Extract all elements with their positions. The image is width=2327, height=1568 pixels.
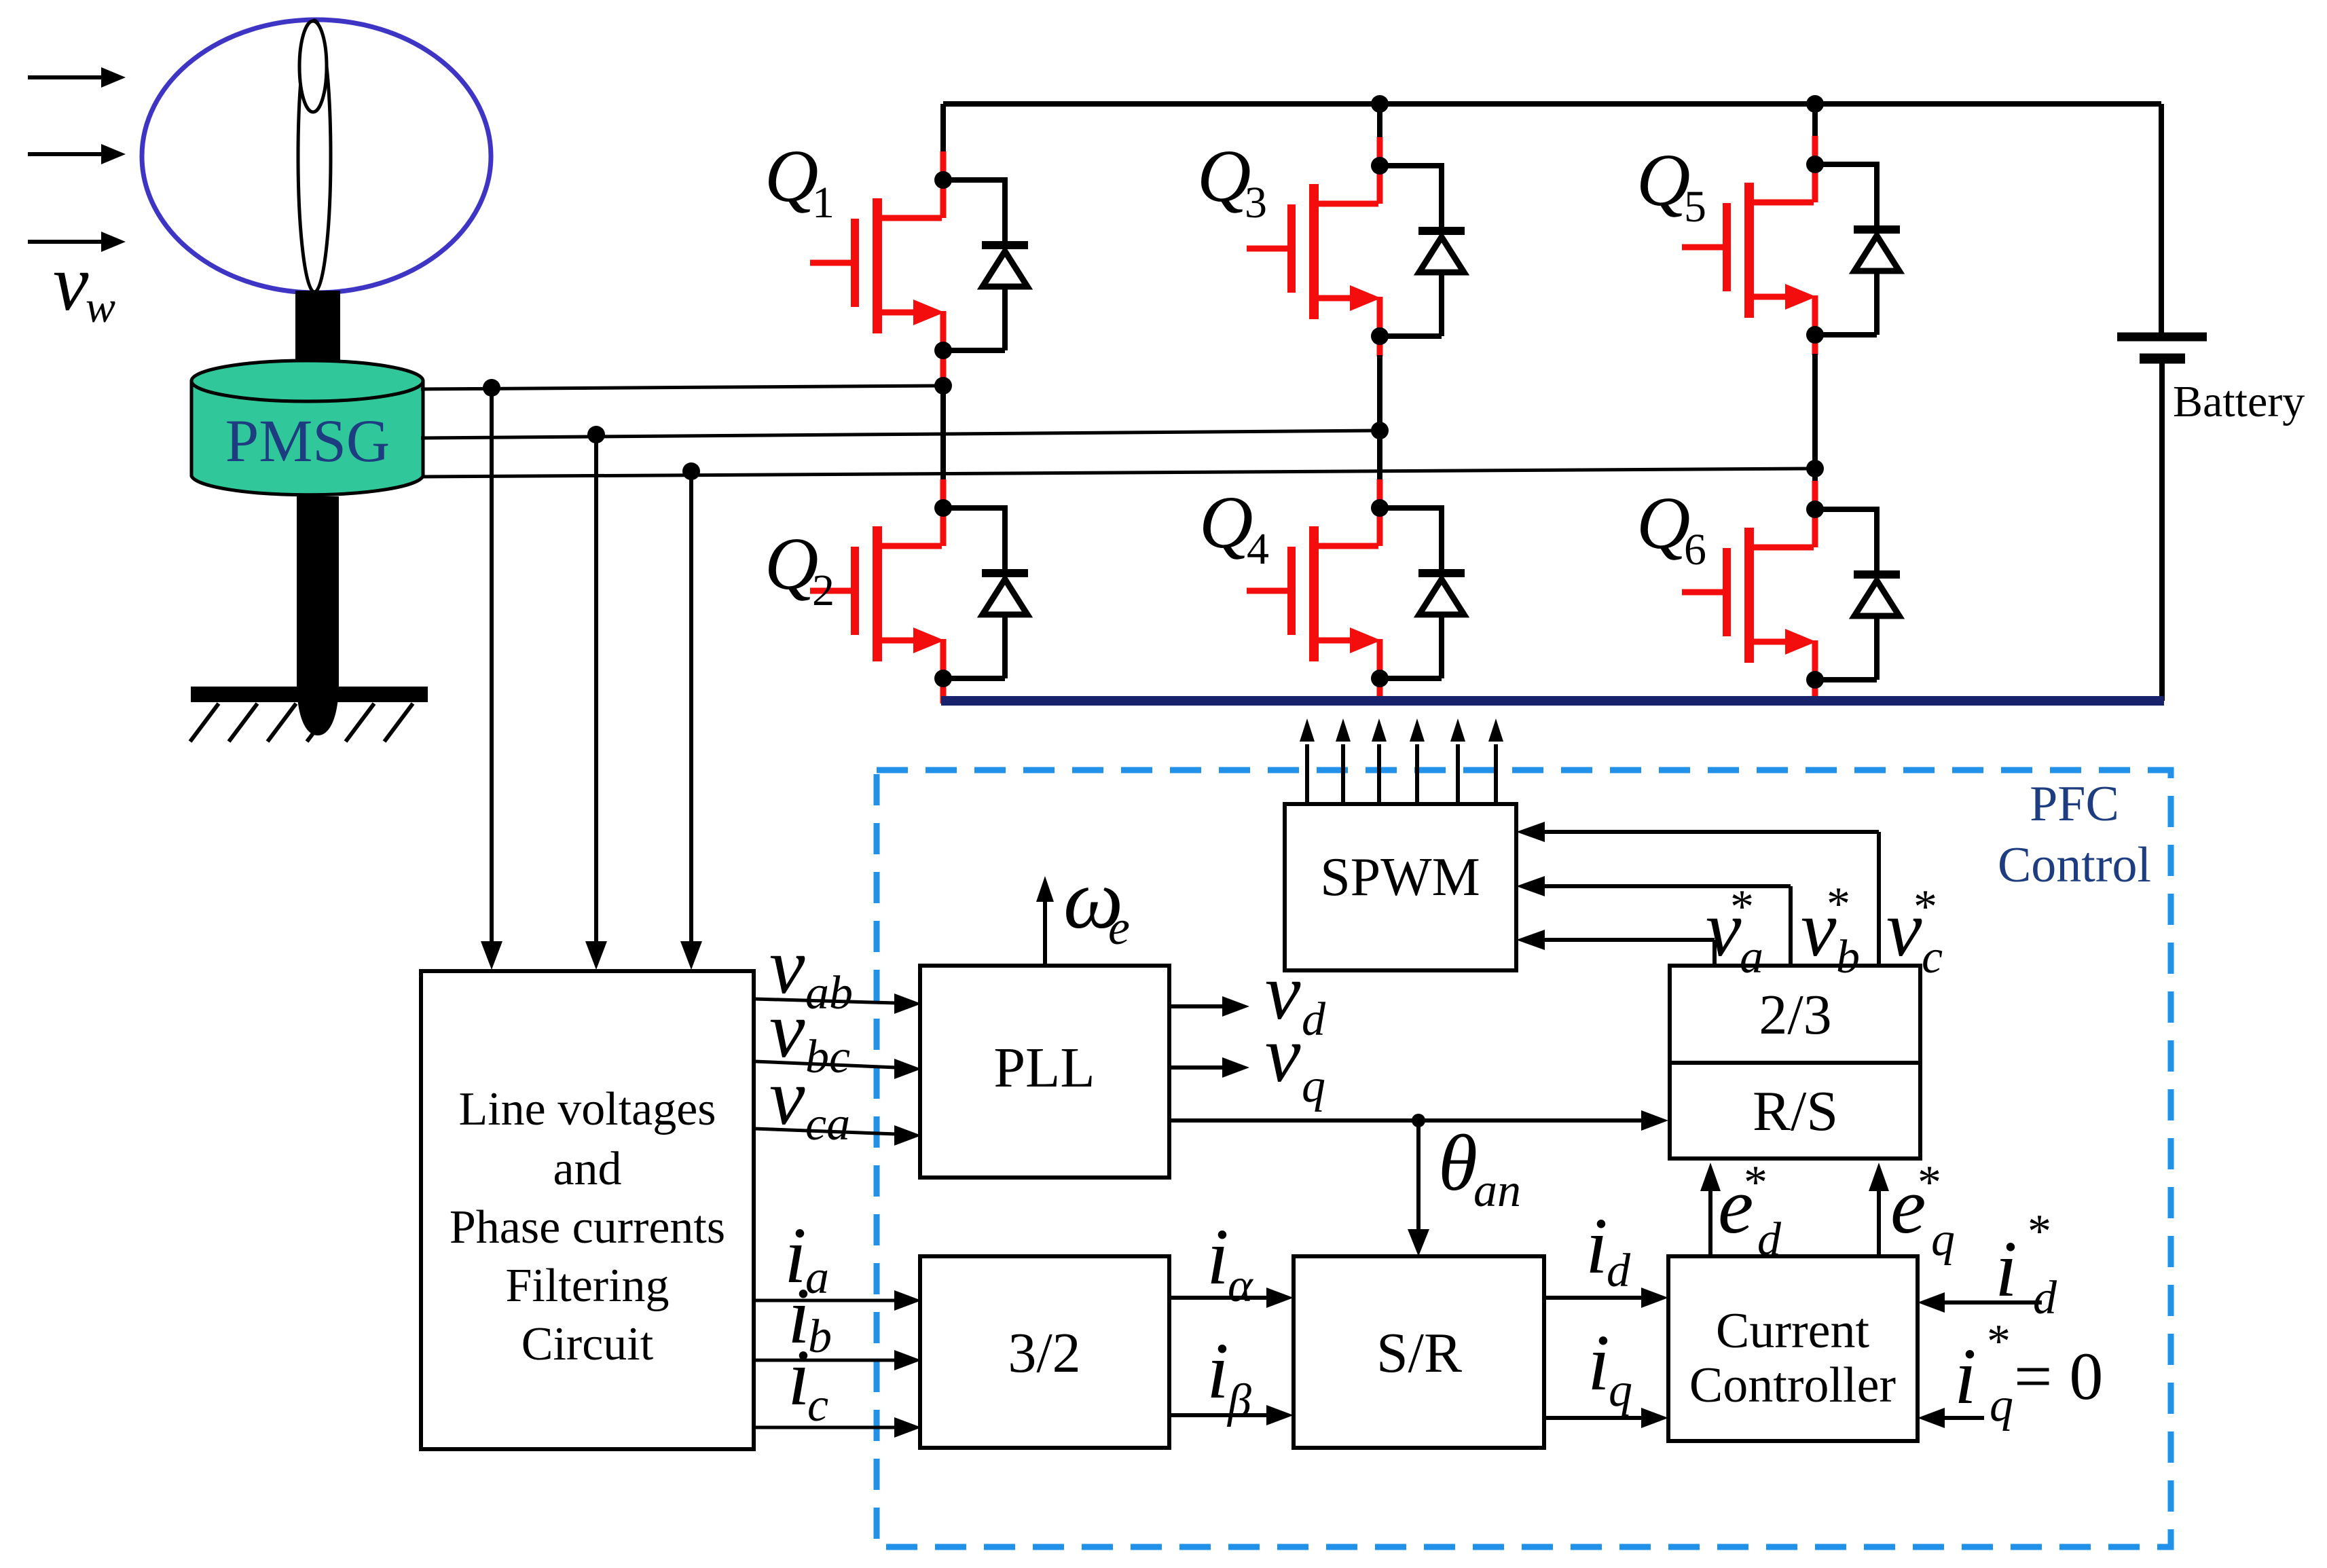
label omega_e	[1063, 853, 1130, 955]
label vab	[769, 922, 853, 1019]
wire leg3 red below Q5	[1812, 333, 1818, 355]
diode D5	[1815, 164, 1900, 335]
wire leg2 red below Q3	[1377, 335, 1383, 357]
svg-text:Current: Current	[1716, 1303, 1869, 1359]
svg-text:*: *	[1827, 878, 1850, 930]
block 2/3 R/S	[1670, 966, 1920, 1159]
svg-text:w: w	[86, 282, 115, 332]
label vca	[769, 1053, 850, 1150]
wire vbc to PLL	[754, 1059, 921, 1079]
svg-text:R/S: R/S	[1753, 1080, 1838, 1143]
diode D4	[1380, 508, 1465, 678]
svg-text:d: d	[2033, 1272, 2057, 1324]
svg-text:θ: θ	[1438, 1118, 1478, 1207]
svg-text:d: d	[1607, 1245, 1631, 1297]
diode D6	[1815, 509, 1900, 680]
wire sense drop b	[585, 435, 607, 970]
label ia	[784, 1211, 829, 1304]
label vq	[1265, 1010, 1325, 1112]
svg-text:Q: Q	[1636, 139, 1690, 221]
svg-text:*: *	[2028, 1205, 2051, 1258]
PFC control dashed boundary	[877, 770, 2171, 1547]
svg-text:q: q	[1302, 1060, 1325, 1112]
svg-text:q: q	[1609, 1364, 1632, 1417]
wire leg3 stub to bus	[1812, 678, 1818, 704]
svg-text:i: i	[1995, 1224, 2017, 1313]
wind arrow 3	[28, 232, 126, 252]
svg-text:bc: bc	[805, 1031, 850, 1083]
arrow vd out	[1169, 996, 1249, 1017]
wire bottom DC bus	[941, 696, 2164, 706]
svg-text:= 0: = 0	[2014, 1338, 2103, 1414]
svg-text:q: q	[1990, 1379, 2013, 1432]
block 3/2	[920, 1256, 1169, 1448]
battery wire lower	[2159, 363, 2165, 701]
svg-text:i: i	[1207, 1212, 1229, 1301]
wind arrow 2	[28, 144, 126, 164]
svg-text:S/R: S/R	[1376, 1321, 1462, 1385]
label Q5	[1636, 139, 1706, 232]
label iq*=0	[1954, 1315, 2103, 1432]
svg-text:d: d	[1757, 1214, 1782, 1266]
label theta_an	[1438, 1118, 1521, 1217]
transistor Q1	[810, 151, 952, 359]
svg-text:PMSG: PMSG	[225, 408, 390, 475]
wire ib to 3/2	[754, 1350, 921, 1370]
wire vq to RS	[1169, 1110, 1668, 1131]
shaft lower	[297, 496, 339, 735]
label vc*	[1886, 881, 1943, 983]
turbine rotor circle	[142, 20, 491, 293]
wire leg2 stub to bus	[1377, 677, 1383, 704]
label eq*	[1890, 1156, 1955, 1266]
transistor Q3	[1247, 137, 1389, 345]
wire ic to 3/2	[754, 1417, 921, 1438]
wire i_q	[1544, 1408, 1668, 1428]
svg-text:5: 5	[1684, 182, 1706, 232]
block filtering circuit	[421, 971, 754, 1449]
battery plate negative	[2140, 354, 2185, 364]
svg-text:q: q	[1931, 1214, 1955, 1266]
svg-text:*: *	[1744, 1156, 1767, 1209]
svg-text:a: a	[1740, 931, 1763, 983]
svg-text:v: v	[53, 238, 89, 327]
block SPWM	[1285, 804, 1516, 970]
transistor Q2	[810, 479, 952, 687]
wire i_beta	[1169, 1405, 1294, 1425]
svg-text:i: i	[1207, 1326, 1229, 1415]
svg-text:6: 6	[1684, 525, 1706, 575]
svg-text:i: i	[1954, 1332, 1977, 1421]
wire va* feedback	[1516, 930, 1715, 966]
label ed*	[1718, 1156, 1782, 1266]
wire leg1 stub to bus	[940, 677, 947, 704]
label i_alpha	[1207, 1212, 1253, 1312]
wire vb* feedback	[1516, 876, 1791, 966]
wire vc* feedback	[1516, 822, 1879, 966]
SPWM gate arrow 1	[1300, 718, 1315, 803]
node phase c tap	[682, 462, 700, 480]
wire ia to 3/2	[754, 1290, 921, 1311]
svg-text:PFC: PFC	[2030, 776, 2119, 832]
wire i_d	[1544, 1288, 1668, 1308]
svg-text:3/2: 3/2	[1008, 1321, 1080, 1385]
wire sense drop c	[680, 471, 702, 970]
svg-text:β: β	[1226, 1375, 1251, 1427]
diode D2	[943, 508, 1028, 678]
block PLL	[920, 966, 1169, 1178]
wire id* ref	[1918, 1292, 2042, 1313]
label Q1	[765, 134, 835, 227]
svg-text:PLL: PLL	[993, 1036, 1095, 1099]
svg-text:i: i	[1588, 1318, 1610, 1407]
wire leg1 lower	[940, 387, 946, 480]
ground hatch	[190, 704, 413, 742]
svg-text:ab: ab	[805, 967, 853, 1019]
svg-text:v: v	[1265, 1010, 1301, 1099]
SPWM gate arrow 5	[1450, 718, 1465, 803]
wire sense drop a	[481, 388, 502, 970]
ground bar	[191, 687, 428, 702]
label ib	[788, 1271, 832, 1363]
arrow omega_e	[1036, 876, 1054, 966]
svg-text:α: α	[1228, 1260, 1253, 1312]
wire leg2 upper	[1377, 104, 1382, 138]
SPWM gate arrow 4	[1410, 718, 1425, 803]
battery plate positive	[2117, 333, 2207, 342]
wire leg1 upper	[940, 104, 946, 152]
label ic	[788, 1333, 828, 1432]
wire leg3 upper	[1812, 104, 1818, 136]
turbine blade hub	[299, 21, 327, 112]
svg-text:Q: Q	[765, 134, 818, 217]
arrow theta_an down	[1408, 1120, 1429, 1256]
svg-text:4: 4	[1247, 524, 1269, 574]
svg-text:Q: Q	[1197, 134, 1251, 217]
block current controller	[1668, 1256, 1918, 1441]
svg-text:2/3: 2/3	[1759, 983, 1831, 1046]
label vd	[1265, 947, 1326, 1046]
svg-text:*: *	[1987, 1315, 2011, 1368]
label i_beta	[1207, 1326, 1251, 1427]
wire leg2 lower	[1377, 431, 1382, 480]
svg-text:i: i	[788, 1333, 810, 1422]
svg-text:2: 2	[812, 566, 835, 615]
svg-text:Q: Q	[1199, 481, 1253, 564]
svg-text:i: i	[1586, 1201, 1608, 1290]
node phase a tap	[483, 379, 500, 397]
svg-text:Phase currents: Phase currents	[450, 1201, 725, 1254]
svg-text:Q: Q	[765, 522, 818, 605]
label filtering circuit	[450, 1083, 725, 1370]
wire phase b	[421, 431, 1380, 438]
transistor Q5	[1682, 136, 1824, 344]
node bus-leg3	[1806, 95, 1824, 113]
svg-text:SPWM: SPWM	[1320, 847, 1480, 907]
svg-text:1: 1	[812, 178, 835, 227]
node phase b leg	[1371, 422, 1389, 439]
svg-text:b: b	[808, 1311, 832, 1363]
svg-text:d: d	[1302, 993, 1326, 1046]
wire iq* ref	[1918, 1408, 1984, 1428]
svg-text:*: *	[1913, 881, 1937, 933]
wind arrow 1	[28, 67, 126, 88]
svg-text:an: an	[1473, 1165, 1521, 1217]
svg-text:v: v	[769, 1053, 805, 1142]
generator PMSG body	[191, 381, 423, 495]
label id*	[1995, 1205, 2057, 1324]
svg-text:Q: Q	[1636, 481, 1690, 564]
wire phase c	[422, 469, 1815, 477]
generator PMSG top	[191, 361, 423, 401]
svg-text:Line voltages: Line voltages	[458, 1083, 716, 1135]
svg-text:Circuit: Circuit	[521, 1318, 654, 1370]
divider 2/3 R/S	[1670, 1061, 1920, 1065]
label v_w	[53, 238, 115, 332]
svg-text:ca: ca	[805, 1098, 850, 1150]
wire phase a	[421, 386, 943, 389]
node phase c leg	[1806, 460, 1824, 477]
label Q3	[1197, 134, 1267, 227]
diode D3	[1380, 166, 1465, 336]
svg-text:Control: Control	[1998, 837, 2151, 893]
label i_d	[1586, 1201, 1631, 1297]
svg-text:*: *	[1918, 1156, 1941, 1209]
node theta junction	[1412, 1114, 1425, 1127]
wire vab to PLL	[754, 993, 921, 1014]
transistor Q6	[1682, 481, 1824, 689]
wire leg2 mid	[1377, 355, 1382, 431]
svg-text:e: e	[1108, 900, 1130, 955]
wire i_alpha	[1169, 1288, 1294, 1308]
label Q6	[1636, 481, 1706, 575]
SPWM gate arrow 6	[1488, 718, 1503, 803]
SPWM gate arrow 3	[1372, 718, 1387, 803]
svg-text:c: c	[1922, 931, 1943, 983]
svg-text:Battery: Battery	[2173, 377, 2305, 426]
node bus-leg2	[1371, 95, 1389, 113]
transistor Q4	[1247, 479, 1389, 687]
svg-text:Controller: Controller	[1689, 1357, 1896, 1413]
SPWM gate arrow 2	[1336, 718, 1351, 803]
label Q2	[765, 522, 835, 615]
wire leg1 mid red	[940, 349, 947, 387]
svg-text:3: 3	[1245, 178, 1267, 227]
svg-text:and: and	[553, 1143, 621, 1195]
svg-text:b: b	[1836, 931, 1860, 983]
label Q4	[1199, 481, 1269, 574]
wire leg3 lower	[1812, 469, 1818, 481]
wire top DC bus	[943, 101, 2161, 107]
node phase b tap	[587, 426, 605, 443]
label vbc	[769, 985, 850, 1083]
label vb*	[1801, 878, 1860, 983]
svg-text:Filtering: Filtering	[505, 1260, 669, 1312]
arrow eq* up	[1869, 1163, 1889, 1256]
wire leg3 mid	[1812, 354, 1818, 469]
battery wire upper	[2159, 104, 2164, 333]
block S/R	[1294, 1256, 1544, 1448]
arrow vq out	[1169, 1057, 1249, 1078]
shaft upper	[295, 291, 340, 363]
turbine blade	[298, 20, 331, 292]
label va*	[1706, 881, 1763, 983]
label i_q	[1588, 1318, 1632, 1417]
svg-text:c: c	[807, 1379, 828, 1432]
wire vca to PLL	[754, 1125, 921, 1146]
arrow ed* up	[1700, 1163, 1721, 1256]
diode D1	[943, 180, 1028, 350]
node phase a leg	[934, 377, 952, 395]
svg-text:*: *	[1730, 881, 1754, 933]
label current controller	[1689, 1303, 1896, 1413]
